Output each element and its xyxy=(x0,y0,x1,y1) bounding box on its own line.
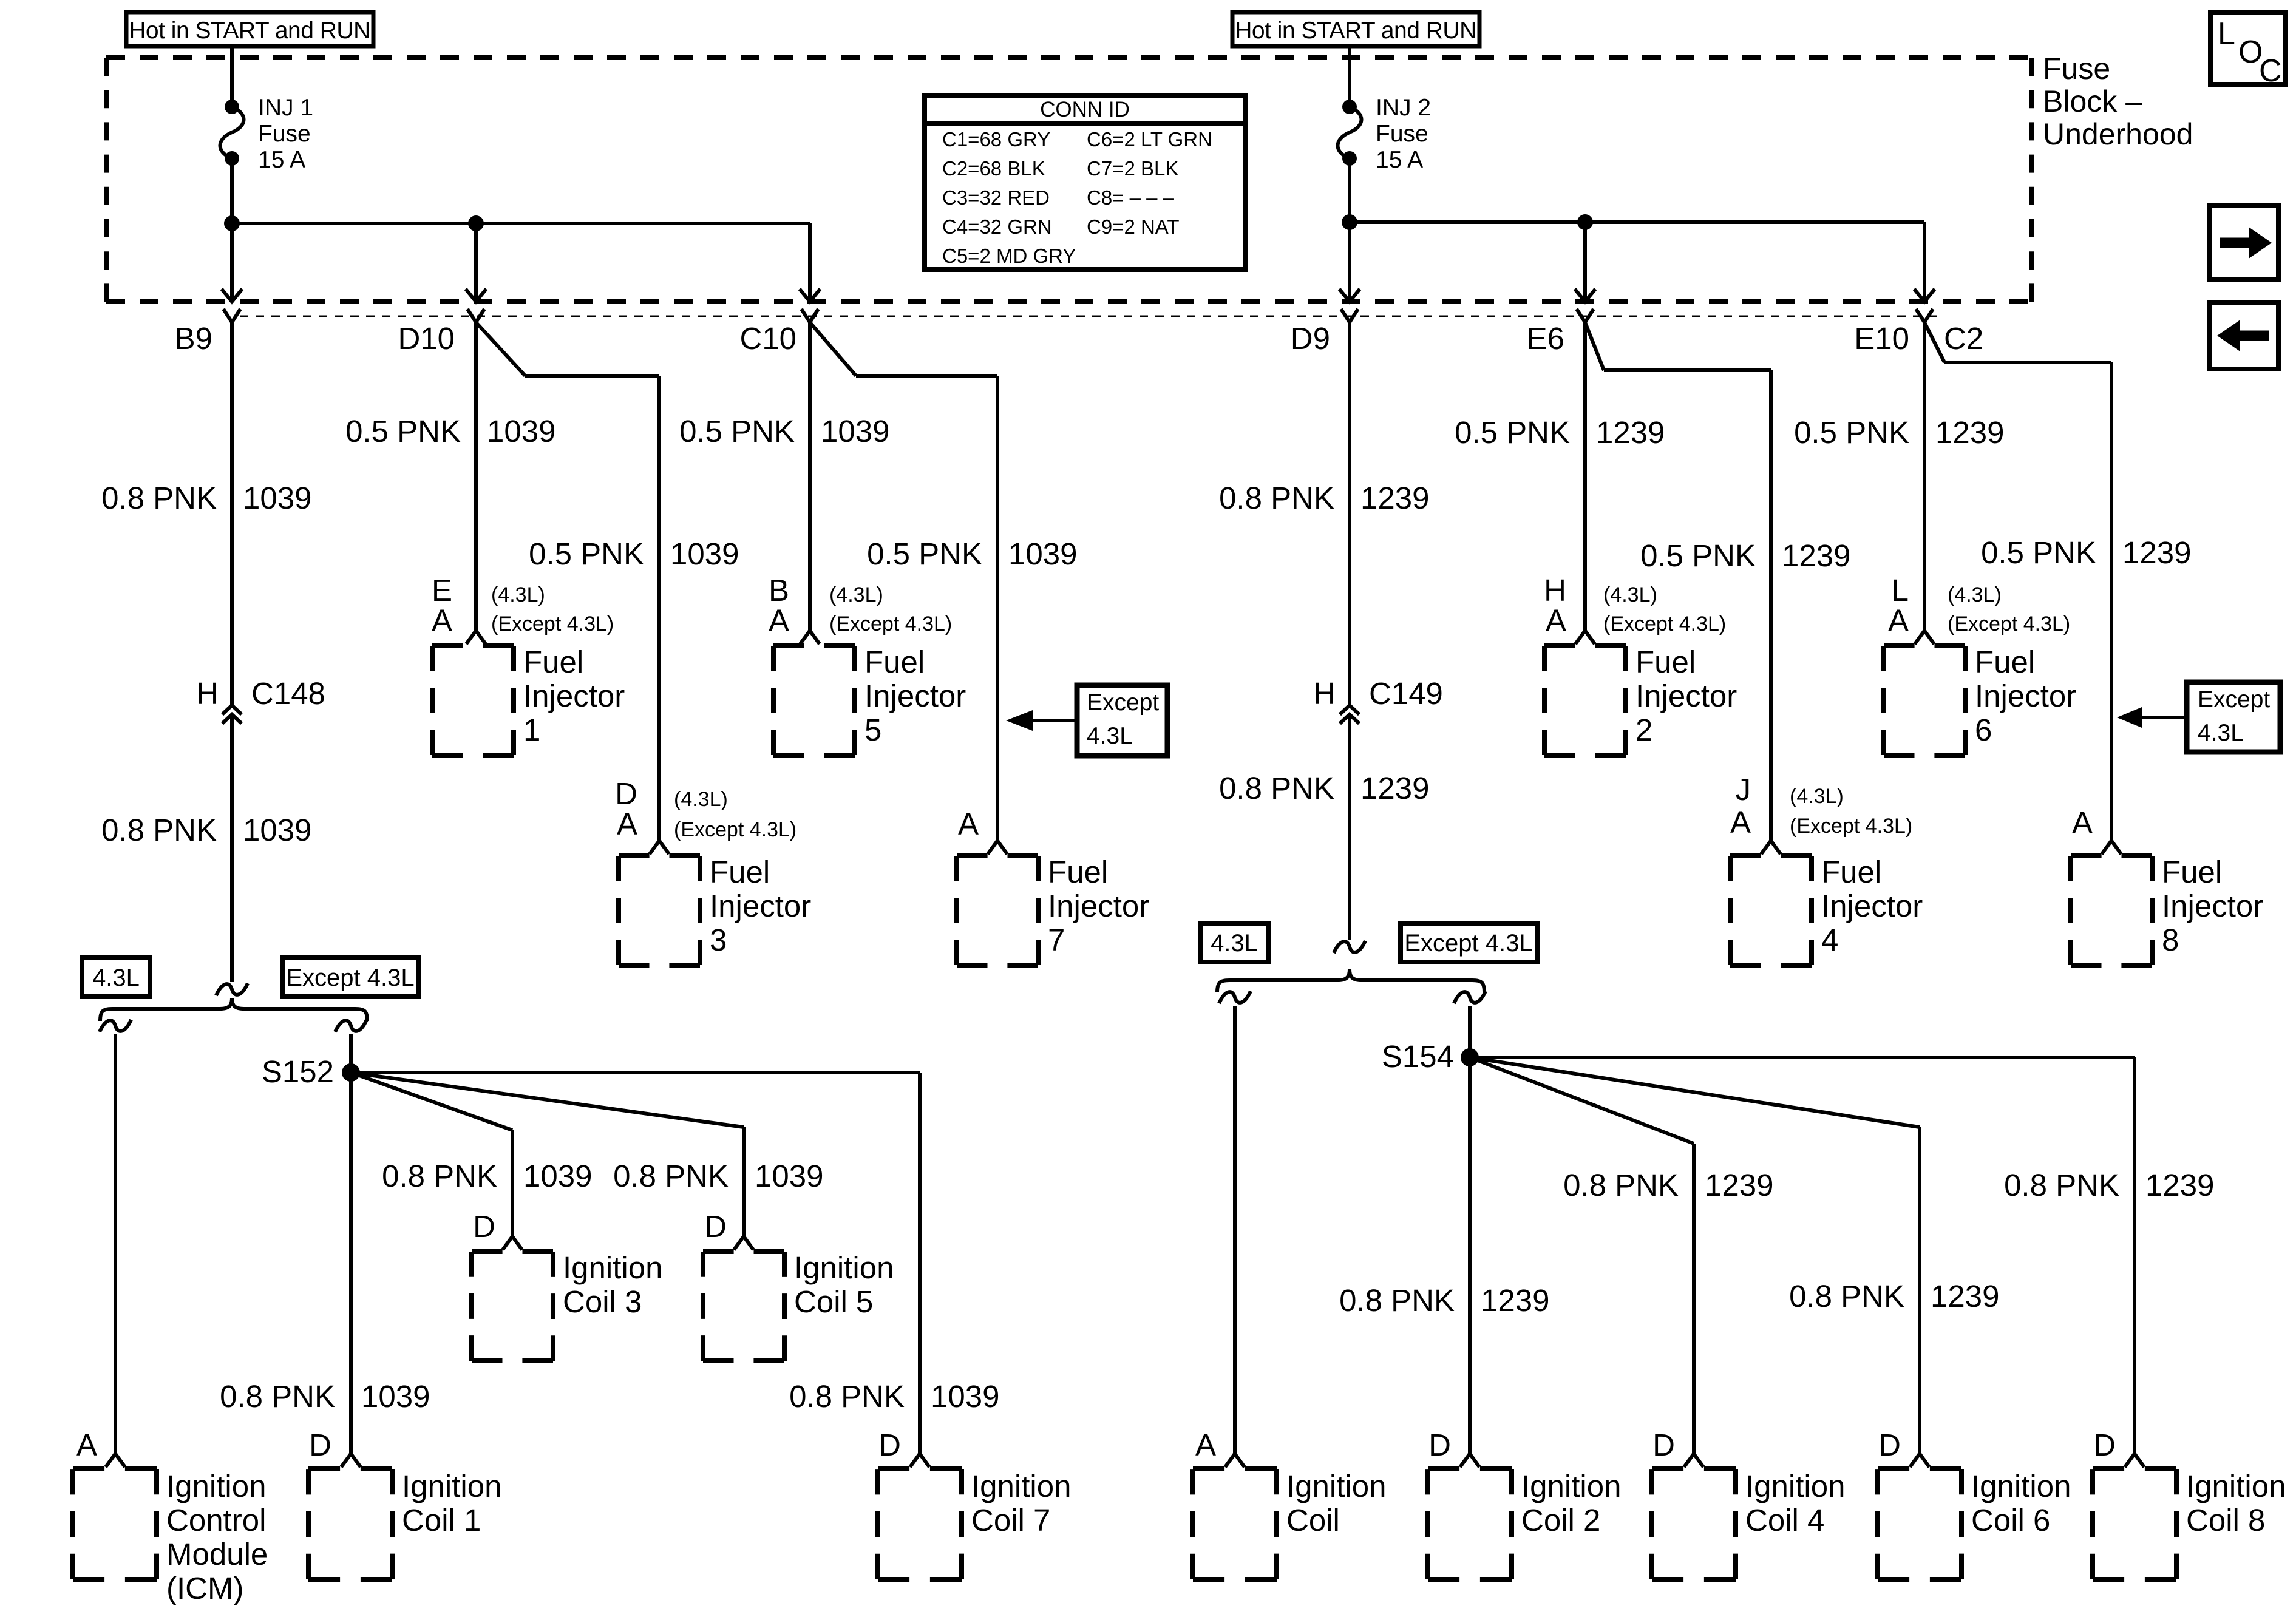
svg-text:Underhood: Underhood xyxy=(2043,117,2193,151)
svg-text:INJ 1: INJ 1 xyxy=(258,95,313,121)
svg-text:Fuel: Fuel xyxy=(2162,855,2222,889)
svg-text:A: A xyxy=(432,603,452,638)
svg-text:J: J xyxy=(1736,772,1751,807)
svg-text:C3=32 RED: C3=32 RED xyxy=(942,186,1050,209)
svg-text:L: L xyxy=(2218,16,2235,52)
svg-text:1239: 1239 xyxy=(1596,415,1665,450)
svg-text:Ignition: Ignition xyxy=(402,1469,501,1503)
svg-text:0.8 PNK: 0.8 PNK xyxy=(1789,1279,1904,1314)
svg-text:1039: 1039 xyxy=(755,1159,823,1193)
svg-text:2: 2 xyxy=(1635,713,1652,747)
svg-text:Except: Except xyxy=(2198,686,2270,713)
svg-text:C149: C149 xyxy=(1369,676,1443,711)
svg-text:D: D xyxy=(615,776,637,811)
svg-text:0.5 PNK: 0.5 PNK xyxy=(1981,535,2096,570)
svg-text:1039: 1039 xyxy=(821,414,889,449)
svg-text:0.8 PNK: 0.8 PNK xyxy=(613,1159,729,1193)
svg-text:7: 7 xyxy=(1048,923,1065,957)
svg-text:C6=2 LT GRN: C6=2 LT GRN xyxy=(1087,128,1212,151)
svg-text:15 A: 15 A xyxy=(1376,147,1423,173)
svg-text:0.8 PNK: 0.8 PNK xyxy=(789,1379,905,1414)
svg-text:0.5 PNK: 0.5 PNK xyxy=(867,537,982,571)
svg-text:Fuel: Fuel xyxy=(1048,855,1108,889)
svg-text:0.8 PNK: 0.8 PNK xyxy=(1219,481,1334,515)
svg-text:(4.3L): (4.3L) xyxy=(491,583,545,606)
svg-text:3: 3 xyxy=(710,923,727,957)
svg-text:Coil 3: Coil 3 xyxy=(563,1284,642,1319)
svg-text:1239: 1239 xyxy=(2145,1168,2214,1202)
svg-text:(Except 4.3L): (Except 4.3L) xyxy=(1790,815,1912,838)
svg-text:Ignition: Ignition xyxy=(563,1250,662,1285)
svg-text:Except 4.3L: Except 4.3L xyxy=(286,964,414,991)
svg-text:4.3L: 4.3L xyxy=(2198,720,2244,746)
svg-text:6: 6 xyxy=(1975,713,1992,747)
svg-text:A: A xyxy=(1888,603,1909,638)
svg-text:1039: 1039 xyxy=(243,481,311,515)
svg-text:Coil 4: Coil 4 xyxy=(1745,1503,1824,1537)
svg-text:Fuel: Fuel xyxy=(864,645,925,679)
svg-text:0.5 PNK: 0.5 PNK xyxy=(679,414,795,449)
svg-text:1239: 1239 xyxy=(1931,1279,1999,1314)
svg-text:1239: 1239 xyxy=(1360,771,1429,805)
svg-text:1039: 1039 xyxy=(243,813,311,847)
svg-text:0.5 PNK: 0.5 PNK xyxy=(1455,415,1570,450)
svg-text:Coil 2: Coil 2 xyxy=(1521,1503,1600,1537)
svg-text:Fuel: Fuel xyxy=(1821,855,1881,889)
svg-text:Hot in START and RUN: Hot in START and RUN xyxy=(1235,18,1476,44)
svg-text:A: A xyxy=(617,807,637,841)
svg-text:Fuel: Fuel xyxy=(1975,645,2035,679)
svg-text:S154: S154 xyxy=(1382,1039,1454,1074)
svg-text:1239: 1239 xyxy=(1782,538,1850,573)
svg-text:Coil 7: Coil 7 xyxy=(971,1503,1050,1537)
svg-text:Fuse: Fuse xyxy=(2043,52,2110,86)
svg-text:0.8 PNK: 0.8 PNK xyxy=(2004,1168,2119,1202)
svg-text:A: A xyxy=(2072,805,2093,840)
svg-text:(Except 4.3L): (Except 4.3L) xyxy=(674,818,796,841)
svg-text:D10: D10 xyxy=(398,321,455,356)
svg-text:Injector: Injector xyxy=(523,679,625,713)
svg-text:0.5 PNK: 0.5 PNK xyxy=(345,414,461,449)
svg-text:(4.3L): (4.3L) xyxy=(1790,785,1844,808)
svg-text:0.8 PNK: 0.8 PNK xyxy=(101,813,217,847)
svg-text:Coil 8: Coil 8 xyxy=(2186,1503,2265,1537)
svg-text:C7=2 BLK: C7=2 BLK xyxy=(1087,157,1178,180)
svg-text:1039: 1039 xyxy=(361,1379,430,1414)
svg-text:Injector: Injector xyxy=(864,679,966,713)
svg-text:D: D xyxy=(878,1428,901,1462)
svg-text:A: A xyxy=(1546,603,1566,638)
svg-text:D: D xyxy=(2093,1428,2116,1462)
svg-text:C148: C148 xyxy=(251,676,325,711)
svg-text:Fuel: Fuel xyxy=(523,645,583,679)
svg-text:Fuse: Fuse xyxy=(1376,121,1428,147)
svg-text:0.8 PNK: 0.8 PNK xyxy=(1219,771,1334,805)
svg-text:Coil: Coil xyxy=(1286,1503,1340,1537)
svg-text:Hot in START and RUN: Hot in START and RUN xyxy=(129,18,370,44)
svg-text:1: 1 xyxy=(523,713,540,747)
svg-text:0.8 PNK: 0.8 PNK xyxy=(1339,1283,1455,1318)
svg-text:Except: Except xyxy=(1087,690,1159,716)
svg-text:4.3L: 4.3L xyxy=(1087,723,1133,749)
svg-text:Control: Control xyxy=(166,1503,266,1537)
svg-text:Except 4.3L: Except 4.3L xyxy=(1404,930,1532,957)
svg-text:Fuse: Fuse xyxy=(258,121,311,147)
svg-text:A: A xyxy=(958,807,979,841)
svg-text:1039: 1039 xyxy=(670,537,739,571)
svg-text:1239: 1239 xyxy=(2122,535,2191,570)
svg-text:INJ 2: INJ 2 xyxy=(1376,95,1431,121)
svg-text:0.5 PNK: 0.5 PNK xyxy=(1640,538,1756,573)
svg-text:Ignition: Ignition xyxy=(971,1469,1071,1503)
svg-text:Injector: Injector xyxy=(1048,889,1149,923)
svg-text:(Except 4.3L): (Except 4.3L) xyxy=(491,612,614,636)
svg-text:D: D xyxy=(1428,1428,1451,1462)
svg-text:5: 5 xyxy=(864,713,881,747)
svg-text:(4.3L): (4.3L) xyxy=(674,788,728,811)
svg-text:CONN ID: CONN ID xyxy=(1040,98,1130,121)
svg-text:1039: 1039 xyxy=(523,1159,592,1193)
svg-text:D: D xyxy=(309,1428,331,1462)
svg-text:H: H xyxy=(196,676,219,711)
svg-text:A: A xyxy=(1195,1428,1216,1462)
svg-text:C4=32 GRN: C4=32 GRN xyxy=(942,215,1052,238)
svg-text:Coil 1: Coil 1 xyxy=(402,1503,481,1537)
svg-text:Injector: Injector xyxy=(1635,679,1737,713)
svg-text:Ignition: Ignition xyxy=(1745,1469,1845,1503)
svg-text:Ignition: Ignition xyxy=(1286,1469,1386,1503)
svg-text:A: A xyxy=(76,1428,97,1462)
svg-text:D: D xyxy=(1652,1428,1675,1462)
svg-text:C1=68 GRY: C1=68 GRY xyxy=(942,128,1050,151)
svg-text:0.8 PNK: 0.8 PNK xyxy=(220,1379,335,1414)
svg-text:C8= – – –: C8= – – – xyxy=(1087,186,1175,209)
svg-text:1239: 1239 xyxy=(1935,415,2004,450)
svg-text:Coil 5: Coil 5 xyxy=(794,1284,873,1319)
svg-text:C2=68 BLK: C2=68 BLK xyxy=(942,157,1045,180)
svg-text:1039: 1039 xyxy=(1008,537,1077,571)
svg-text:1239: 1239 xyxy=(1481,1283,1549,1318)
svg-text:Ignition: Ignition xyxy=(794,1250,894,1285)
svg-text:8: 8 xyxy=(2162,923,2179,957)
svg-text:1239: 1239 xyxy=(1360,481,1429,515)
svg-text:D: D xyxy=(704,1209,727,1244)
svg-text:C5=2 MD GRY: C5=2 MD GRY xyxy=(942,245,1076,267)
svg-text:Ignition: Ignition xyxy=(1521,1469,1621,1503)
svg-text:H: H xyxy=(1313,676,1336,711)
svg-text:Injector: Injector xyxy=(710,889,811,923)
svg-text:15 A: 15 A xyxy=(258,147,305,173)
svg-text:4.3L: 4.3L xyxy=(92,964,140,991)
svg-text:1039: 1039 xyxy=(487,414,555,449)
svg-text:(4.3L): (4.3L) xyxy=(829,583,883,606)
svg-text:Ignition: Ignition xyxy=(166,1469,266,1503)
svg-text:(Except 4.3L): (Except 4.3L) xyxy=(1948,612,2070,636)
svg-text:1239: 1239 xyxy=(1705,1168,1773,1202)
svg-text:0.8 PNK: 0.8 PNK xyxy=(1563,1168,1679,1202)
svg-text:(Except 4.3L): (Except 4.3L) xyxy=(829,612,952,636)
svg-text:H: H xyxy=(1544,573,1566,608)
svg-text:Injector: Injector xyxy=(1975,679,2076,713)
svg-text:Injector: Injector xyxy=(1821,889,1923,923)
svg-text:C: C xyxy=(2259,53,2282,89)
svg-text:A: A xyxy=(1730,805,1751,839)
svg-text:Coil 6: Coil 6 xyxy=(1971,1503,2050,1537)
svg-text:0.8 PNK: 0.8 PNK xyxy=(382,1159,497,1193)
svg-text:Fuel: Fuel xyxy=(710,855,770,889)
svg-text:4: 4 xyxy=(1821,923,1838,957)
svg-text:B9: B9 xyxy=(175,321,212,356)
svg-text:4.3L: 4.3L xyxy=(1211,930,1258,957)
svg-text:(4.3L): (4.3L) xyxy=(1603,583,1657,606)
svg-text:(Except 4.3L): (Except 4.3L) xyxy=(1603,612,1726,636)
svg-text:C10: C10 xyxy=(739,321,796,356)
svg-text:C9=2 NAT: C9=2 NAT xyxy=(1087,215,1180,238)
svg-text:E: E xyxy=(432,573,452,608)
svg-text:D9: D9 xyxy=(1291,321,1330,356)
svg-text:D: D xyxy=(1878,1428,1901,1462)
svg-text:L: L xyxy=(1892,573,1909,608)
svg-text:0.5 PNK: 0.5 PNK xyxy=(529,537,644,571)
svg-text:(4.3L): (4.3L) xyxy=(1948,583,2002,606)
svg-text:Ignition: Ignition xyxy=(1971,1469,2071,1503)
svg-text:Block –: Block – xyxy=(2043,84,2142,118)
svg-text:D: D xyxy=(473,1209,495,1244)
svg-text:S152: S152 xyxy=(262,1054,334,1089)
svg-text:0.8 PNK: 0.8 PNK xyxy=(101,481,217,515)
svg-text:C2: C2 xyxy=(1944,321,1983,356)
svg-text:E10: E10 xyxy=(1854,321,1909,356)
svg-text:Fuel: Fuel xyxy=(1635,645,1696,679)
svg-text:A: A xyxy=(769,603,789,638)
svg-text:0.5 PNK: 0.5 PNK xyxy=(1794,415,1909,450)
svg-text:(ICM): (ICM) xyxy=(166,1571,243,1605)
svg-text:1039: 1039 xyxy=(931,1379,999,1414)
svg-text:Injector: Injector xyxy=(2162,889,2263,923)
svg-text:B: B xyxy=(769,573,789,608)
svg-text:E6: E6 xyxy=(1527,321,1564,356)
svg-text:Module: Module xyxy=(166,1537,268,1571)
svg-text:Ignition: Ignition xyxy=(2186,1469,2286,1503)
